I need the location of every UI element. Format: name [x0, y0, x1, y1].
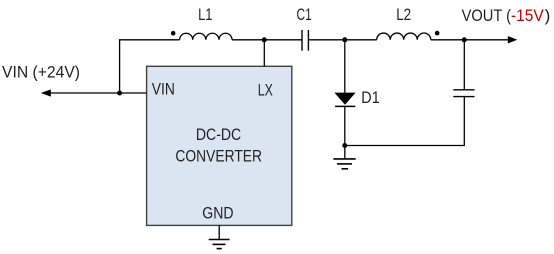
- svg-text:VIN: VIN: [152, 79, 175, 98]
- svg-text:-15V: -15V: [511, 6, 544, 25]
- box text DC-DC: [196, 125, 241, 144]
- polarity dot of L2: [435, 31, 440, 36]
- label L1: [198, 5, 212, 24]
- label L2: [396, 5, 411, 24]
- wire C1 to L2: [308, 39, 376, 41]
- capacitor C1: [302, 30, 308, 51]
- capacitor Cout: [453, 90, 474, 97]
- svg-text:DC-DC: DC-DC: [196, 125, 241, 144]
- net label VOUT (: [462, 6, 512, 25]
- svg-text:CONVERTER: CONVERTER: [175, 146, 262, 165]
- svg-text:VOUT (: VOUT (: [462, 6, 512, 25]
- node ground junction: [342, 143, 347, 148]
- wire L2 to output arrow: [431, 36, 518, 43]
- wire D1 anode drop: [344, 40, 346, 93]
- ground symbol at GND pin: [209, 225, 230, 248]
- label D1: [361, 88, 379, 107]
- inductor L2: [377, 33, 431, 40]
- node D1 top junction: [342, 37, 347, 42]
- ground symbol at D1: [333, 146, 355, 169]
- wire D1 cathode to ground node: [344, 106, 346, 145]
- node LX junction: [262, 37, 267, 42]
- svg-text:L1: L1: [198, 5, 212, 24]
- wire VIN input with left arrow: [41, 89, 147, 96]
- pin label LX: [258, 80, 273, 99]
- svg-text:L2: L2: [396, 5, 411, 24]
- label C1: [297, 5, 312, 24]
- net label -15V red: [511, 6, 544, 25]
- pin label GND: [202, 204, 233, 223]
- node VIN junction: [117, 91, 122, 96]
- wire output cap top: [463, 40, 465, 90]
- svg-text:): ): [545, 6, 551, 25]
- svg-text:D1: D1: [361, 88, 379, 107]
- net label closing paren: [545, 6, 551, 25]
- converter box U1: [147, 66, 292, 225]
- svg-text:GND: GND: [202, 204, 233, 223]
- diode D1: [334, 93, 355, 107]
- svg-text:VIN (+24V): VIN (+24V): [2, 63, 80, 82]
- node VOUT junction: [462, 37, 467, 42]
- svg-text:LX: LX: [258, 80, 273, 99]
- pin label VIN: [152, 79, 175, 98]
- wire riser to top rail: [120, 40, 180, 93]
- inductor L1: [180, 33, 233, 40]
- wire L1 to C1: [232, 39, 302, 41]
- wire LX pin drop: [263, 40, 265, 67]
- polarity dot of L1: [171, 31, 176, 36]
- wire output cap bottom return: [345, 97, 465, 146]
- box text CONVERTER: [175, 146, 262, 165]
- net label VIN (+24V): [2, 63, 80, 82]
- svg-text:C1: C1: [297, 5, 312, 24]
